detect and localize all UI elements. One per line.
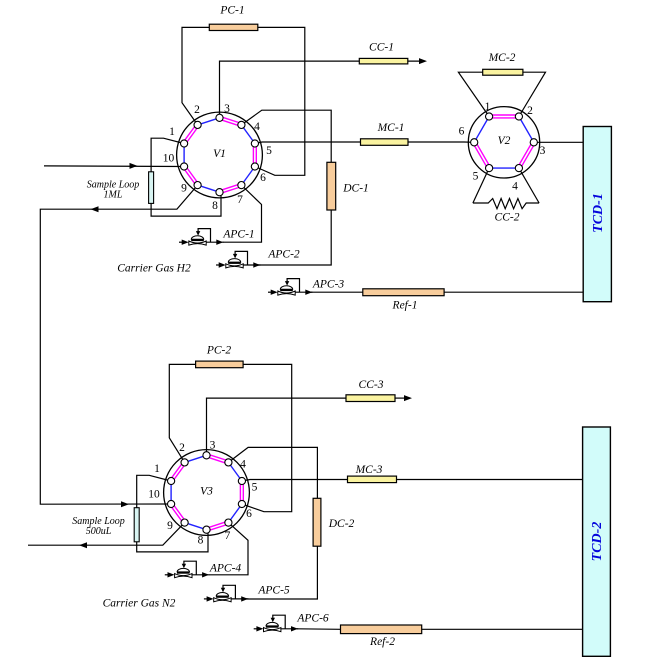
column DC-1 (327, 162, 336, 210)
wire V2 ports 1,2 to MC-2 (458, 72, 545, 116)
svg-text:9: 9 (167, 520, 173, 532)
label Sample Loop 500uL (72, 516, 125, 537)
svg-text:9: 9 (181, 183, 187, 195)
svg-text:5: 5 (252, 482, 258, 494)
svg-text:APC-4: APC-4 (209, 563, 242, 575)
svg-text:10: 10 (163, 153, 175, 165)
wire MC-1 to V2 port 6 (408, 141, 474, 143)
svg-text:4: 4 (254, 121, 260, 133)
svg-text:5: 5 (266, 145, 272, 157)
svg-text:6: 6 (260, 172, 266, 184)
column Ref-2 (341, 625, 422, 634)
svg-text:APC-2: APC-2 (267, 249, 300, 261)
svg-text:500uL: 500uL (86, 526, 112, 537)
wire CC-1 vent arrow (408, 58, 427, 64)
valve V1 body (177, 112, 263, 198)
svg-text:2: 2 (527, 105, 533, 117)
wire V3 port 5 to MC-3 (242, 480, 348, 482)
detector TCD-2 (583, 427, 611, 656)
svg-text:DC-1: DC-1 (342, 183, 369, 195)
svg-text:1ML: 1ML (104, 190, 123, 201)
svg-text:3: 3 (210, 440, 216, 452)
wire APC-4 to V3 port 7 (209, 523, 248, 575)
column DC-2 (313, 498, 321, 546)
regulator APC-5 (204, 585, 249, 602)
svg-text:V1: V1 (213, 148, 226, 160)
valve V2 body (468, 107, 539, 178)
svg-text:4: 4 (240, 459, 246, 471)
column MC-3 (348, 476, 397, 483)
svg-text:4: 4 (512, 181, 518, 193)
svg-text:8: 8 (198, 535, 204, 547)
svg-text:TCD-2: TCD-2 (590, 522, 605, 562)
wire sample in to V1 port 10 (44, 163, 184, 169)
svg-text:V2: V2 (498, 135, 511, 147)
sample loop 500uL tube (134, 508, 139, 542)
wire CC-3 vent arrow (395, 395, 412, 401)
svg-text:7: 7 (225, 530, 231, 542)
wire PC-1 to V1 port 6 (255, 27, 305, 175)
column Ref-1 (363, 289, 444, 296)
wire APC-6 to Ref-2 (297, 628, 341, 631)
svg-text:1: 1 (169, 126, 175, 138)
column CC-1 (359, 58, 408, 64)
wire V3 port 2 to PC-2 (169, 364, 195, 462)
wire PC-2 to V3 port 6 (242, 364, 292, 511)
wire DC-2 to APC-5 (246, 546, 317, 599)
svg-text:APC-6: APC-6 (296, 613, 329, 625)
wire V3 port 1 to sample loop 2 top (137, 475, 171, 507)
label Sample Loop 1ML (87, 180, 140, 201)
sample loop 1ML tube (149, 172, 154, 204)
svg-text:7: 7 (237, 194, 243, 206)
svg-text:5: 5 (473, 171, 479, 183)
restrictor coil CC-2 on V2 ports 4,5 (473, 168, 539, 209)
regulator APC-1 (179, 229, 224, 246)
regulator APC-4 (165, 561, 210, 578)
svg-text:6: 6 (246, 508, 252, 520)
wire V2 port 3 to TCD-1 (534, 141, 584, 143)
wire APC-3 to Ref-1 (311, 291, 363, 293)
regulator APC-2 (216, 251, 261, 268)
svg-text:MC-3: MC-3 (355, 464, 383, 476)
wire V1 port 1 to sample loop top (151, 138, 184, 172)
valve V3 body (164, 450, 250, 536)
svg-text:PC-2: PC-2 (206, 345, 232, 357)
svg-text:Carrier Gas N2: Carrier Gas N2 (103, 598, 176, 610)
svg-text:V3: V3 (200, 485, 213, 497)
svg-text:Carrier Gas H2: Carrier Gas H2 (117, 263, 191, 275)
svg-text:3: 3 (540, 145, 546, 157)
regulator APC-6 (254, 615, 299, 632)
column PC-2 (196, 361, 244, 368)
svg-text:DC-2: DC-2 (328, 518, 355, 530)
column CC-3 (346, 395, 395, 402)
detector TCD-1 (583, 127, 611, 302)
wire Ref-2 to TCD-2 (422, 628, 583, 630)
wire Ref-1 to TCD-1 (444, 291, 583, 293)
column MC-2 (483, 69, 523, 75)
svg-text:8: 8 (212, 200, 218, 212)
column PC-1 (209, 24, 257, 30)
regulator APC-3 (268, 279, 313, 296)
svg-text:APC-1: APC-1 (222, 229, 254, 241)
wire MC-3 to TCD-2 (397, 479, 583, 481)
svg-text:APC-3: APC-3 (312, 279, 345, 291)
wire V1 port 3 to CC-1 (220, 61, 360, 118)
wire V1 port 4 to DC-1 (241, 110, 331, 162)
wire V1 port 5 to MC-1 (255, 142, 361, 144)
svg-text:CC-2: CC-2 (495, 212, 520, 224)
svg-text:3: 3 (224, 103, 230, 115)
wire V3 port 4 to DC-2 (228, 447, 317, 498)
wire sample loop 2 bottom to V3 port 8 (137, 529, 208, 552)
wire V1 port 9 waste out, down to V3 port 10 (40, 185, 197, 507)
svg-text:2: 2 (194, 104, 200, 116)
svg-text:10: 10 (148, 489, 160, 501)
svg-text:6: 6 (459, 126, 465, 138)
svg-text:Ref-2: Ref-2 (369, 636, 395, 648)
svg-text:MC-1: MC-1 (377, 122, 405, 134)
svg-text:CC-3: CC-3 (359, 379, 384, 391)
wire sample loop bottom to V1 port 8 (151, 192, 221, 216)
svg-text:PC-1: PC-1 (219, 5, 244, 17)
column MC-1 (361, 139, 409, 146)
svg-text:Ref-1: Ref-1 (392, 300, 418, 312)
wire DC-1 to APC-2 (258, 210, 331, 265)
wire V3 port 3 to CC-3 (207, 398, 347, 455)
wire V3 port 9 waste out (28, 523, 185, 549)
svg-text:APC-5: APC-5 (257, 585, 290, 597)
wire APC-1 to V1 port 7 (223, 185, 262, 242)
svg-text:1: 1 (154, 463, 160, 475)
svg-text:1: 1 (485, 101, 491, 113)
svg-text:TCD-1: TCD-1 (591, 193, 606, 233)
svg-text:MC-2: MC-2 (488, 52, 516, 64)
svg-text:2: 2 (179, 442, 185, 454)
wire V1 port 2 to PC-1 (182, 27, 209, 125)
svg-text:CC-1: CC-1 (369, 42, 394, 54)
